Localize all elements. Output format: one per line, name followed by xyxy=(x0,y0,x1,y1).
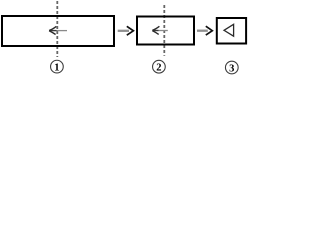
dashed centerline through box 1 xyxy=(56,1,58,57)
svg-text:2: 2 xyxy=(156,63,161,74)
svg-text:1: 1 xyxy=(54,63,59,74)
box 3 xyxy=(217,18,246,44)
box 2 xyxy=(137,17,194,45)
left arrow inside box 1 xyxy=(49,26,67,34)
dashed centerline through box 2 xyxy=(163,5,165,56)
hollow left triangle inside box 3 xyxy=(224,24,234,36)
circled number 2 label xyxy=(153,60,166,73)
left arrow inside box 2 xyxy=(152,26,168,34)
arrow from box 1 to box 2 xyxy=(118,26,134,35)
svg-text:3: 3 xyxy=(229,63,234,74)
circled number 1 label xyxy=(51,60,64,73)
box 1 xyxy=(2,16,114,46)
arrow from box 2 to box 3 xyxy=(197,26,212,35)
circled number 3 label xyxy=(225,61,238,74)
